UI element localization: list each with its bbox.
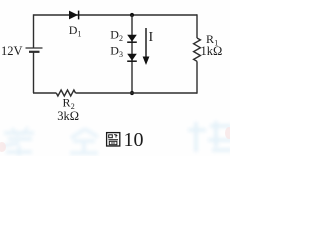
watermark right glyph bbox=[188, 121, 234, 152]
diode D3 bbox=[127, 54, 137, 61]
svg-text:I: I bbox=[149, 30, 154, 45]
svg-text:R: R bbox=[63, 96, 71, 110]
wire right lower bbox=[196, 61, 198, 93]
svg-text:12V: 12V bbox=[1, 44, 23, 58]
watermark pink speck right bbox=[225, 127, 233, 139]
svg-text:D: D bbox=[110, 27, 119, 41]
svg-text:3kΩ: 3kΩ bbox=[57, 109, 79, 123]
node top junction bbox=[130, 13, 134, 17]
watermark left glyph bbox=[3, 127, 34, 156]
svg-text:D: D bbox=[69, 23, 78, 37]
wire left upper bbox=[33, 14, 35, 48]
current arrow I bbox=[143, 28, 150, 65]
battery B1 plate long bbox=[26, 47, 43, 49]
diode D2 bbox=[127, 35, 137, 42]
svg-text:1kΩ: 1kΩ bbox=[201, 44, 223, 58]
svg-text:2: 2 bbox=[119, 34, 123, 43]
resistor R1 bbox=[194, 38, 201, 61]
resistor R2 bbox=[56, 90, 75, 96]
watermark pink speck left bbox=[0, 142, 6, 152]
diode D1 bbox=[69, 11, 79, 20]
wire top bbox=[34, 14, 198, 16]
wire left lower bbox=[33, 52, 35, 93]
wire bottom left bbox=[33, 92, 56, 94]
caption glyph tu (figure) bbox=[107, 133, 120, 146]
svg-text:1: 1 bbox=[78, 29, 82, 38]
svg-text:D: D bbox=[110, 44, 119, 58]
node bottom junction bbox=[130, 91, 134, 95]
svg-text:3: 3 bbox=[119, 50, 123, 59]
battery B1 plate short bbox=[29, 51, 40, 53]
svg-text:10: 10 bbox=[124, 129, 144, 151]
watermark center glyph bbox=[70, 129, 98, 153]
wire middle branch bbox=[131, 15, 133, 93]
wire right upper bbox=[196, 14, 198, 38]
wire bottom right bbox=[76, 92, 198, 94]
